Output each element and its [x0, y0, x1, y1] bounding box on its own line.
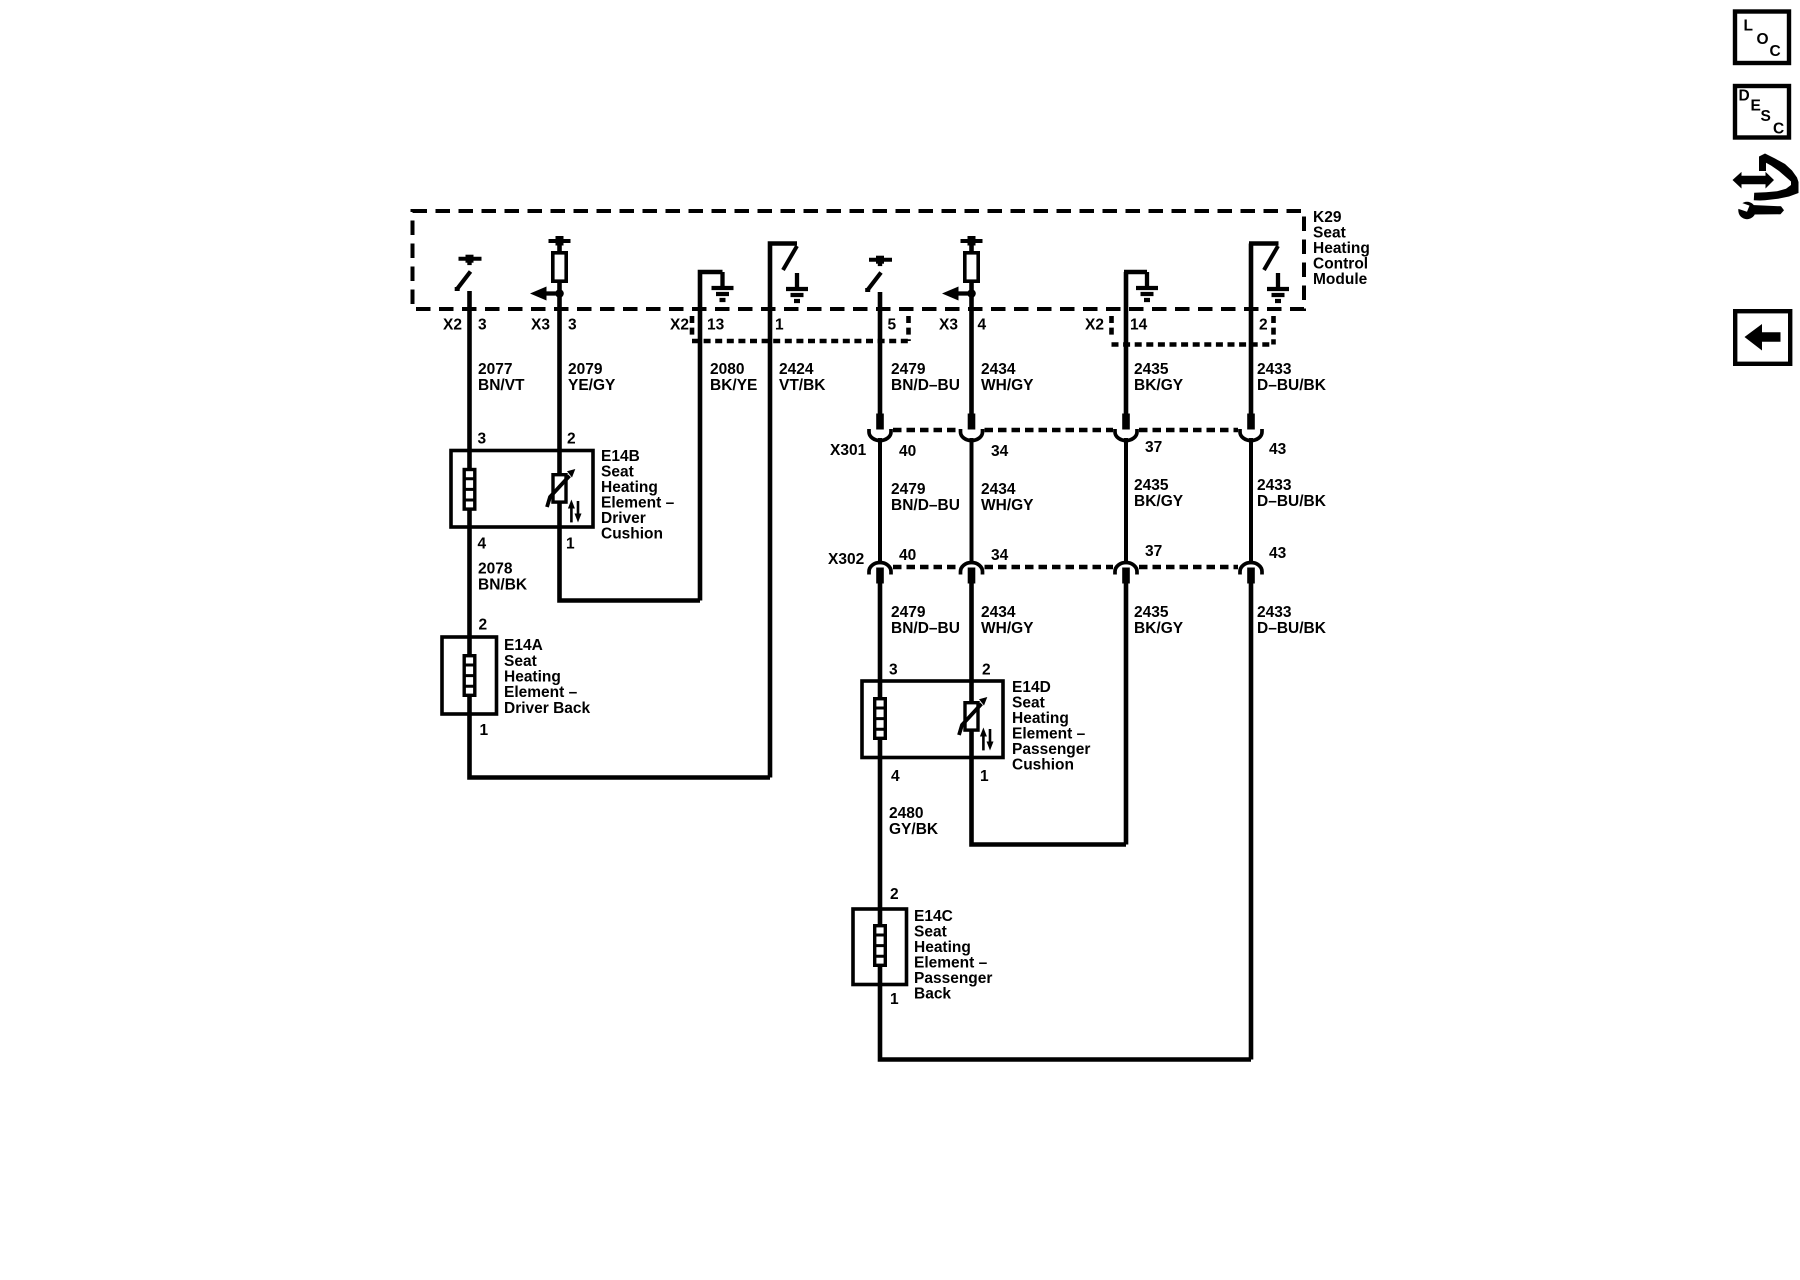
label E14D Seat Heating Element Passenger Cushion [1012, 679, 1090, 774]
label 2080 BK/YE [710, 361, 757, 394]
wire E14B driver element side [467, 450, 472, 527]
label 2433 D-BU/BK [1257, 361, 1327, 394]
svg-text:40: 40 [899, 443, 916, 460]
connector X301 dashed line [893, 428, 1238, 433]
svg-text:1: 1 [890, 991, 899, 1008]
heating element symbol E14C [875, 926, 886, 966]
svg-text:2479: 2479 [891, 481, 926, 498]
svg-text:2479: 2479 [891, 361, 926, 378]
svg-text:Heating: Heating [1012, 710, 1069, 727]
svg-text:2434: 2434 [981, 604, 1016, 621]
wire 2480 GY/BK [878, 757, 883, 909]
connector X2 dashed box (pins 13,1,5) [692, 316, 909, 341]
icon harness double arrow with wrench [1733, 154, 1799, 220]
pin 2 label E14A [479, 617, 488, 634]
label 40 [899, 443, 916, 460]
svg-text:Seat: Seat [1313, 225, 1346, 242]
label 2434 WH/GY [981, 361, 1034, 394]
icon DESC box [1735, 86, 1789, 138]
label K29 Seat Heating Control Module [1313, 209, 1370, 288]
svg-text:Passenger: Passenger [1012, 741, 1090, 758]
svg-text:Seat: Seat [504, 653, 537, 670]
connector X301 pin 34 [961, 414, 983, 441]
svg-text:2435: 2435 [1134, 604, 1169, 621]
wire 2079 YE/GY [557, 282, 562, 450]
svg-text:Seat: Seat [914, 924, 947, 941]
svg-text:WH/GY: WH/GY [981, 620, 1034, 637]
svg-text:E: E [1751, 98, 1761, 115]
label E14A Seat Heating Element Driver Back [504, 637, 591, 717]
svg-text:E14B: E14B [601, 448, 640, 465]
svg-text:O: O [1757, 31, 1769, 48]
pin label X2 3 [443, 317, 487, 334]
svg-text:Element –: Element – [1012, 726, 1086, 743]
svg-text:GY/BK: GY/BK [889, 821, 939, 838]
pin 1 label E14D [980, 768, 989, 785]
wire E14C element side [878, 909, 883, 984]
wire E14A pin 1 to node 2424 [470, 714, 771, 778]
svg-text:BK/GY: BK/GY [1134, 377, 1184, 394]
wire 2434 WH/GY upper [969, 282, 974, 415]
label 34 [991, 443, 1009, 460]
svg-text:Heating: Heating [914, 939, 971, 956]
svg-text:L: L [1744, 18, 1753, 35]
svg-text:Cushion: Cushion [1012, 757, 1074, 774]
wire E14D thermistor side [969, 701, 974, 757]
label E14C Seat Heating Element Passenger Back [914, 908, 992, 1003]
pin 2 label E14B [567, 431, 576, 448]
connector X302 pin 43 [1240, 563, 1262, 584]
svg-text:1: 1 [775, 317, 784, 334]
component E14C box [853, 909, 907, 985]
svg-text:37: 37 [1145, 543, 1162, 560]
svg-text:X3: X3 [939, 317, 958, 334]
wire 2435 BK/GY lower [1124, 583, 1129, 845]
svg-text:5: 5 [888, 317, 897, 334]
label 2435 BK/GY lower [1134, 604, 1184, 637]
svg-text:2424: 2424 [779, 361, 814, 378]
label 2479 BN/D-BU lower [891, 604, 960, 637]
wire 2479 BN/D-BU upper [878, 292, 883, 415]
svg-text:2435: 2435 [1134, 477, 1169, 494]
svg-text:X301: X301 [830, 442, 867, 459]
ground (module pin 14) [1124, 272, 1158, 300]
resistor driver with feedback arrow (module pin X3-3) [530, 236, 571, 301]
wire 2077 BN/VT [467, 291, 472, 450]
svg-text:2479: 2479 [891, 604, 926, 621]
wire E14B pin 1 to node 2080 [560, 527, 701, 601]
pin 1 label E14B [566, 536, 575, 553]
svg-text:14: 14 [1130, 317, 1148, 334]
svg-text:Back: Back [914, 986, 951, 1003]
svg-text:34: 34 [991, 443, 1009, 460]
svg-text:4: 4 [978, 317, 987, 334]
wire E14B thermistor side [557, 450, 562, 527]
svg-text:Driver: Driver [601, 510, 646, 527]
connector X301 pin 43 [1240, 414, 1262, 441]
wire 2435 BK/GY upper [1124, 272, 1129, 415]
svg-text:2: 2 [479, 617, 488, 634]
component E14D box [862, 681, 1003, 758]
label 40 lower [899, 547, 916, 564]
connector X302 pin 34 [961, 563, 983, 584]
connector X301 pin 37 [1115, 414, 1137, 441]
svg-text:Driver Back: Driver Back [504, 700, 591, 717]
svg-text:2: 2 [567, 431, 576, 448]
svg-text:BN/D–BU: BN/D–BU [891, 620, 960, 637]
svg-text:40: 40 [899, 547, 916, 564]
svg-text:1: 1 [480, 722, 489, 739]
component E14A box [442, 637, 497, 714]
svg-text:Control: Control [1313, 256, 1368, 273]
label 2424 VT/BK [779, 361, 826, 394]
pin label X3 3 [531, 317, 577, 334]
svg-text:2: 2 [890, 886, 899, 903]
svg-text:C: C [1770, 43, 1781, 60]
svg-text:C: C [1773, 121, 1784, 138]
svg-text:E14D: E14D [1012, 679, 1051, 696]
svg-text:43: 43 [1269, 545, 1287, 562]
label 43 [1269, 441, 1287, 458]
wire 2479 BN/D-BU lower [878, 583, 883, 681]
svg-text:E14A: E14A [504, 637, 543, 654]
svg-text:Passenger: Passenger [914, 970, 992, 987]
svg-text:1: 1 [566, 536, 575, 553]
wire 2434 WH/GY lower [969, 583, 974, 701]
resistor driver with feedback arrow (module pin X3-4) [942, 236, 983, 301]
wire 2078 BN/BK [467, 527, 472, 637]
svg-text:34: 34 [991, 547, 1009, 564]
svg-text:2077: 2077 [478, 361, 512, 378]
label 2479 BN/D-BU [891, 361, 960, 394]
icon LOC box [1735, 12, 1789, 64]
pin 4 label E14D [891, 768, 900, 785]
pin label 2 [1259, 317, 1268, 334]
svg-text:3: 3 [478, 431, 487, 448]
svg-text:2434: 2434 [981, 361, 1016, 378]
label 2433 D-BU/BK lower [1257, 604, 1327, 637]
svg-text:K29: K29 [1313, 209, 1342, 226]
wire 2433 D-BU/BK lower [1249, 583, 1254, 1060]
pin label X3 4 [939, 317, 987, 334]
label X302 [828, 551, 864, 568]
svg-text:BN/D–BU: BN/D–BU [891, 497, 960, 514]
svg-text:43: 43 [1269, 441, 1287, 458]
svg-text:1: 1 [980, 768, 989, 785]
label 2479 BN/D-BU mid [891, 481, 960, 514]
label 34 lower [991, 547, 1009, 564]
heating element symbol E14D [875, 699, 886, 739]
wire 2479 BN/D-BU middle [878, 438, 882, 561]
svg-text:2079: 2079 [568, 361, 603, 378]
svg-text:BK/YE: BK/YE [710, 377, 757, 394]
svg-text:2080: 2080 [710, 361, 744, 378]
svg-text:2: 2 [1259, 317, 1268, 334]
component E14B box [451, 451, 593, 528]
svg-text:D–BU/BK: D–BU/BK [1257, 493, 1327, 510]
label 37 [1145, 439, 1162, 456]
svg-text:2435: 2435 [1134, 361, 1169, 378]
wire E14D pin 1 to node 2435 [972, 757, 1127, 845]
label 2077 BN/VT [478, 361, 525, 394]
label 2434 WH/GY lower [981, 604, 1034, 637]
svg-text:Cushion: Cushion [601, 526, 663, 543]
svg-text:2433: 2433 [1257, 361, 1292, 378]
pin label X2 14 [1085, 317, 1148, 334]
switch (module pin 5) [865, 256, 892, 291]
svg-text:2: 2 [982, 662, 991, 679]
svg-text:BN/VT: BN/VT [478, 377, 525, 394]
wire 2080 BK/YE [700, 272, 723, 601]
svg-text:WH/GY: WH/GY [981, 377, 1034, 394]
svg-text:2434: 2434 [981, 481, 1016, 498]
svg-text:X302: X302 [828, 551, 864, 568]
svg-text:Module: Module [1313, 271, 1368, 288]
svg-text:WH/GY: WH/GY [981, 497, 1034, 514]
svg-text:2078: 2078 [478, 561, 513, 578]
svg-text:37: 37 [1145, 439, 1162, 456]
pin 4 label E14B [478, 536, 487, 553]
icon back arrow box [1735, 311, 1790, 364]
wire 2435 BK/GY middle [1124, 438, 1128, 561]
connector X302 pin 40 [869, 563, 891, 584]
svg-text:BK/GY: BK/GY [1134, 620, 1184, 637]
label E14B Seat Heating Element Driver Cushion [601, 448, 675, 543]
label X301 [830, 442, 867, 459]
connector X302 pin 37 [1115, 563, 1137, 584]
pin 1 label E14A [480, 722, 489, 739]
svg-text:Seat: Seat [1012, 695, 1045, 712]
svg-text:Heating: Heating [504, 669, 561, 686]
pin 3 label E14D [889, 662, 898, 679]
label 2079 YE/GY [568, 361, 616, 394]
svg-text:Element –: Element – [504, 684, 578, 701]
svg-text:Seat: Seat [601, 464, 634, 481]
pin 3 label E14B [478, 431, 487, 448]
thermistor symbol E14D [959, 697, 994, 751]
wire E14C pin 1 to node 2433 [880, 984, 1251, 1060]
svg-text:E14C: E14C [914, 908, 953, 925]
svg-text:13: 13 [707, 317, 725, 334]
svg-text:BK/GY: BK/GY [1134, 493, 1184, 510]
wire 2433 D-BU/BK upper [1249, 244, 1254, 415]
heating element symbol E14A [464, 656, 475, 696]
svg-text:4: 4 [478, 536, 487, 553]
pin 1 label E14C [890, 991, 899, 1008]
svg-text:D–BU/BK: D–BU/BK [1257, 377, 1327, 394]
svg-text:BN/D–BU: BN/D–BU [891, 377, 960, 394]
connector X301 pin 40 [869, 414, 891, 441]
module K29 dashed outline [413, 211, 1305, 309]
svg-text:X2: X2 [1085, 317, 1104, 334]
svg-text:D: D [1739, 88, 1750, 105]
label 2480 GY/BK [889, 805, 939, 838]
svg-text:Element –: Element – [601, 495, 675, 512]
svg-text:YE/GY: YE/GY [568, 377, 616, 394]
pin label 1 [775, 317, 784, 334]
thermistor symbol E14B [547, 469, 582, 523]
svg-text:X2: X2 [670, 317, 689, 334]
svg-text:Heating: Heating [601, 479, 658, 496]
wire 2434 WH/GY middle [970, 438, 974, 561]
label 2434 WH/GY mid [981, 481, 1034, 514]
wire E14A element side [467, 637, 472, 714]
label 37 lower [1145, 543, 1162, 560]
svg-text:VT/BK: VT/BK [779, 377, 826, 394]
svg-text:3: 3 [478, 317, 487, 334]
label 2433 D-BU/BK mid [1257, 477, 1327, 510]
pin label 5 [888, 317, 897, 334]
svg-text:3: 3 [889, 662, 898, 679]
svg-text:X3: X3 [531, 317, 550, 334]
svg-text:2433: 2433 [1257, 477, 1292, 494]
svg-text:Heating: Heating [1313, 240, 1370, 257]
heating element symbol E14B [464, 470, 475, 510]
svg-text:S: S [1761, 108, 1771, 125]
svg-text:Element –: Element – [914, 955, 988, 972]
label 2435 BK/GY mid [1134, 477, 1184, 510]
svg-text:4: 4 [891, 768, 900, 785]
switch to ground (module pin 2) [1249, 244, 1289, 302]
svg-text:BN/BK: BN/BK [478, 577, 528, 594]
connector X302 dashed line [893, 565, 1238, 570]
svg-text:3: 3 [568, 317, 577, 334]
label 2078 BN/BK [478, 561, 528, 594]
pin 2 label E14C [890, 886, 899, 903]
pin 2 label E14D [982, 662, 991, 679]
label 2435 BK/GY [1134, 361, 1184, 394]
svg-text:2480: 2480 [889, 805, 923, 822]
svg-text:X2: X2 [443, 317, 462, 334]
ground (module pin 13) [712, 272, 734, 300]
connector X2 dashed box (pins 14,2) [1112, 316, 1274, 345]
pin label X2 13 [670, 317, 725, 334]
label 43 lower [1269, 545, 1287, 562]
wire E14D element side [878, 681, 883, 757]
svg-text:2433: 2433 [1257, 604, 1292, 621]
svg-text:D–BU/BK: D–BU/BK [1257, 620, 1327, 637]
wire 2433 D-BU/BK middle [1249, 438, 1253, 561]
switch to ground (module pin 1) [783, 246, 808, 301]
wire 2424 VT/BK [770, 244, 797, 778]
switch (module pin X2-3) [455, 255, 482, 290]
